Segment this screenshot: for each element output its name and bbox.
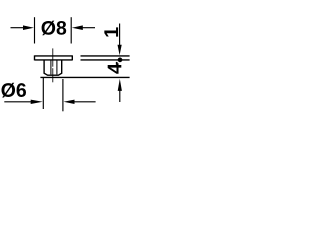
dimension O6 label bbox=[2, 83, 27, 98]
dimension O6 extension line right bbox=[62, 79, 64, 111]
lower reference line (head bottom extended right) bbox=[81, 59, 130, 61]
upper reference line (head top extended right) bbox=[81, 55, 130, 57]
dimension 4 label (rotated) bbox=[108, 63, 122, 74]
bore line left bbox=[50, 60, 52, 75]
dimension O6 right arrow bbox=[64, 100, 96, 104]
bottom reference line (insertion depth) bbox=[40, 76, 129, 78]
dot terminator on lower reference line bbox=[118, 58, 123, 63]
dimension O8 extension line right bbox=[70, 17, 72, 43]
dimension O8 label bbox=[42, 21, 67, 36]
dimension O6 extension line left bbox=[42, 77, 44, 109]
dimension 1 line with down arrow bbox=[118, 24, 122, 56]
part shank (sleeve body) bbox=[44, 60, 62, 75]
part head (flange) outline bbox=[35, 55, 73, 60]
dimension 4 bottom arrow (pointing up) bbox=[118, 79, 122, 102]
bore line right bbox=[56, 60, 58, 75]
dimension O8 right arrow bbox=[72, 25, 95, 30]
dimension O6 left arrow bbox=[4, 100, 42, 104]
dimension O8 left arrow bbox=[11, 25, 34, 30]
centerline of part bbox=[52, 48, 54, 82]
dimension O8 extension line left bbox=[34, 17, 36, 43]
dimension 1 label (rotated) bbox=[104, 27, 118, 36]
